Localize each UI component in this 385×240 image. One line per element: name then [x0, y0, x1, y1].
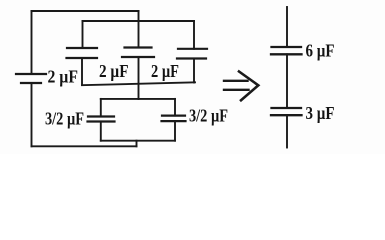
wire left vertical lower [31, 83, 33, 146]
arrow implication double line [224, 81, 249, 90]
wire right circuit bottom [286, 115, 288, 147]
capacitor C5 3/2uF (box left edge) [88, 99, 115, 141]
capacitor C1 2uF (far left) plates [16, 74, 46, 83]
wire right circuit middle [286, 54, 288, 108]
capacitor C6 3/2uF (box right edge) [162, 99, 186, 141]
svg-text:2 µF: 2 µF [99, 61, 129, 81]
wire box top edge [101, 98, 175, 100]
wire left vertical upper [31, 11, 33, 74]
wire jog to box bottom [136, 141, 138, 147]
capacitor C8 3uF plates [271, 108, 302, 115]
wire second rail [83, 20, 195, 22]
capacitor C2 2uF (top-left) [67, 21, 98, 85]
svg-text:2 µF: 2 µF [151, 61, 179, 81]
svg-text:3 µF: 3 µF [306, 103, 335, 123]
wire box bottom edge [101, 140, 175, 142]
wire bottom [32, 145, 137, 147]
wire middle rail [82, 82, 195, 85]
svg-text:2 µF: 2 µF [48, 67, 79, 87]
wire right circuit top [286, 7, 288, 47]
capacitor C7 6uF plates [271, 47, 302, 54]
capacitor C3 2uF (top-middle) [122, 11, 154, 99]
svg-text:3/2 µF: 3/2 µF [189, 106, 228, 126]
svg-text:6 µF: 6 µF [306, 40, 335, 60]
capacitor C4 2uF (top-right) [177, 21, 207, 83]
arrow head [239, 72, 258, 101]
svg-text:3/2 µF: 3/2 µF [45, 108, 84, 128]
wire top rail [32, 10, 139, 12]
